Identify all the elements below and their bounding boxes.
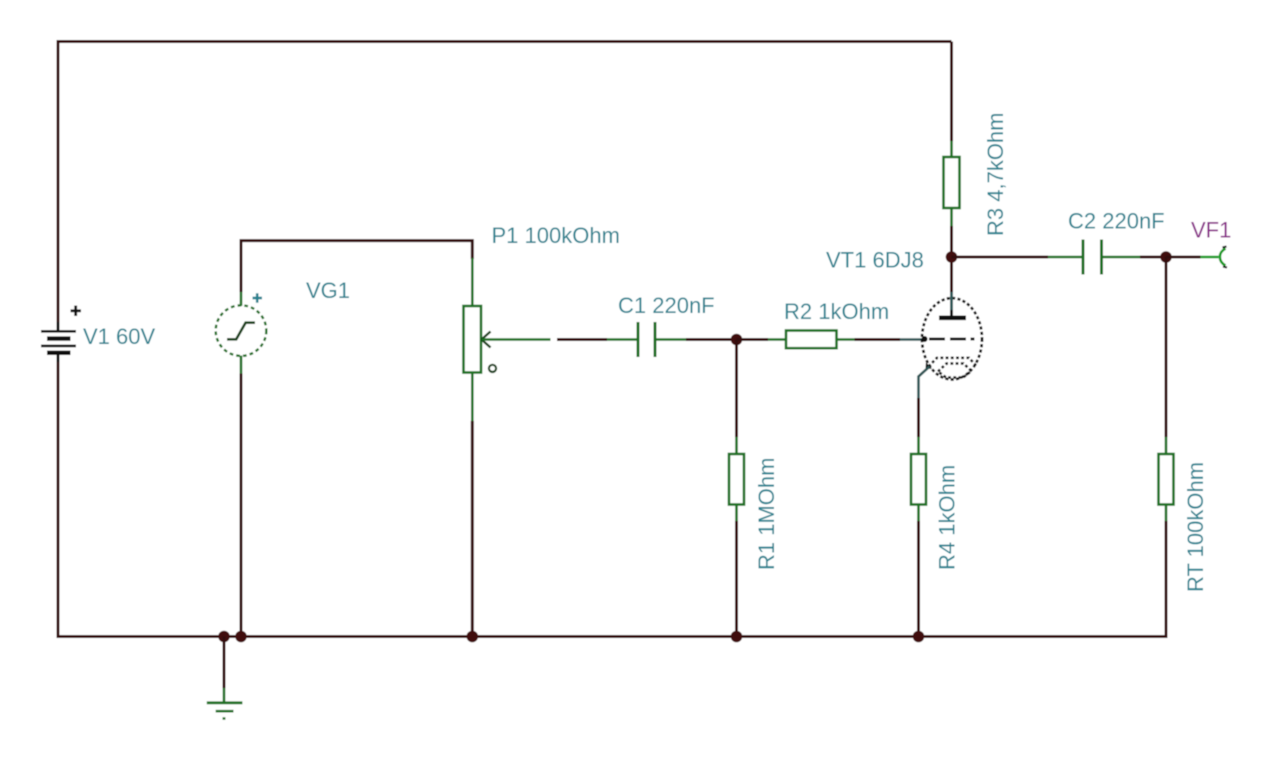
potentiometer P1	[464, 258, 497, 421]
anode plate bar	[939, 315, 966, 320]
node C1/R1 junction dot	[731, 334, 743, 346]
triode VT1 envelope	[922, 298, 982, 379]
node R1 bottom junction dot	[731, 631, 743, 643]
grid lead teal	[900, 338, 923, 341]
wire bottom rail	[57, 635, 1167, 638]
node ground junction dot	[218, 631, 230, 643]
svg-text:C1 220nF: C1 220nF	[618, 293, 715, 318]
probe lead green	[1201, 256, 1219, 259]
svg-text:R4 1kOhm: R4 1kOhm	[935, 465, 960, 570]
ground symbol	[207, 688, 243, 719]
VG1 top lead	[240, 292, 243, 306]
wire top rail	[58, 40, 952, 43]
wire RT to bottom rail corner	[1164, 521, 1166, 638]
svg-text:C2 220nF: C2 220nF	[1068, 209, 1165, 234]
anode lead	[950, 262, 953, 316]
cathode blob	[926, 362, 933, 369]
svg-text:VF1: VF1	[1191, 218, 1231, 243]
wire R2 to tube grid	[855, 338, 901, 341]
VG1 bottom lead	[240, 356, 243, 374]
battery V1	[41, 322, 76, 362]
svg-text:R2 1kOhm: R2 1kOhm	[784, 299, 889, 324]
wire C1 to node	[686, 338, 737, 341]
wiper wire dark segment	[557, 338, 607, 341]
svg-text:P1 100kOhm: P1 100kOhm	[492, 223, 620, 248]
capacitor C2	[1048, 240, 1140, 275]
wire node down to R1	[735, 340, 738, 438]
svg-text:VG1: VG1	[306, 278, 350, 303]
grid junction dot	[922, 336, 928, 342]
source VG1	[216, 305, 267, 356]
wire node to R2	[737, 338, 769, 341]
svg-text:R3 4,7kOhm: R3 4,7kOhm	[983, 113, 1008, 237]
svg-text:R1 1MOhm: R1 1MOhm	[754, 458, 779, 570]
wire C2 to output node	[1140, 256, 1166, 259]
wire anode node to C2	[952, 256, 1049, 259]
probe VF1 symbol	[1220, 247, 1227, 268]
resistor R4	[911, 437, 926, 521]
resistor R2	[768, 331, 855, 349]
wire R3 to anode node	[950, 226, 953, 257]
output node junction dot	[1160, 251, 1172, 263]
VG1 plus sign	[253, 293, 263, 302]
node P1 bottom junction dot	[467, 631, 479, 643]
svg-text:V1 60V: V1 60V	[83, 324, 155, 349]
node R4 bottom junction dot	[913, 631, 925, 643]
wire left rail	[57, 40, 60, 330]
capacitor C1	[607, 322, 686, 357]
wire output node to probe	[1166, 256, 1201, 259]
anode node junction dot	[946, 251, 958, 263]
heater shape	[938, 364, 972, 378]
resistor RT	[1159, 437, 1174, 521]
ground wire	[223, 637, 226, 689]
resistor R1	[729, 437, 744, 521]
cathode lead	[919, 367, 930, 438]
wiper lead green	[482, 338, 551, 341]
wire top rail down to R3	[950, 42, 953, 142]
wire VG1 to P1 top	[241, 241, 472, 292]
wire R4 to bottom rail	[917, 521, 920, 637]
resistor R3	[944, 141, 960, 226]
wire R1 to bottom rail	[735, 521, 738, 637]
grid dashes	[929, 338, 975, 341]
wire output node down to RT	[1165, 257, 1168, 437]
battery plus sign	[71, 306, 82, 317]
wire VG1 to bottom rail	[240, 374, 243, 637]
wire P1 to bottom rail	[471, 421, 474, 637]
node VG1 bottom junction dot	[235, 631, 247, 643]
svg-text:RT 100kOhm: RT 100kOhm	[1183, 462, 1208, 592]
cathode dome	[929, 358, 977, 367]
wire left rail lower	[57, 353, 60, 638]
svg-text:VT1 6DJ8: VT1 6DJ8	[826, 248, 924, 273]
